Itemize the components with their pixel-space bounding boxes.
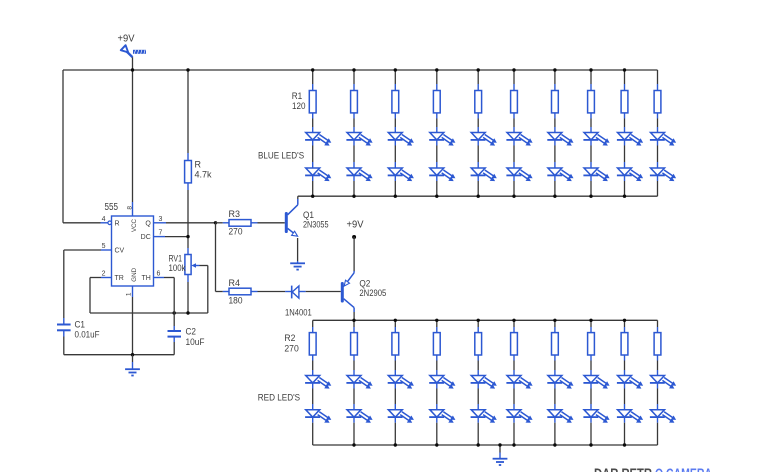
wire ground stem	[132, 355, 134, 362]
wire pin7 stub	[154, 236, 166, 238]
wire red column 10 drop	[657, 320, 659, 327]
wire left rail down to 555 reset	[62, 70, 64, 223]
junction blue col 4 top rail	[435, 68, 438, 71]
junction ground node	[131, 353, 134, 356]
wire blue column 4 drop	[436, 70, 438, 84]
wire C2 top wire	[173, 313, 175, 326]
wire pin7 to RV1 net	[165, 236, 188, 238]
wire blue column 7 to bottom rail	[554, 176, 556, 182]
svg-text:R3: R3	[229, 209, 241, 219]
junction red col 4 top rail	[435, 319, 438, 322]
resistor R1 bank column 4	[433, 91, 440, 113]
svg-text:O CAMERA: O CAMERA	[655, 466, 712, 472]
red LED column 3 top	[388, 376, 414, 389]
wire +9V to Q2 emitter	[353, 237, 355, 271]
wire blue column 5 resistor to LED	[477, 113, 479, 119]
wire VCC drop	[132, 70, 134, 202]
svg-text:1: 1	[125, 292, 132, 296]
junction red col 8 bottom rail	[589, 443, 592, 446]
wire red column 3 between LEDs	[394, 383, 396, 389]
wire blue column 10 drop	[657, 70, 659, 84]
junction blue col 8 top rail	[589, 68, 592, 71]
wire blue column 6 drop	[513, 70, 515, 84]
svg-text:2N3055: 2N3055	[303, 219, 329, 229]
wire pin5 stub	[101, 249, 112, 251]
wire drop to R 4.7k	[187, 70, 189, 153]
junction blue col 3 top rail	[394, 68, 397, 71]
blue LED column 9 bottom	[617, 168, 643, 181]
wire red column 6 between LEDs	[513, 383, 515, 389]
blue LED column 4 bottom	[429, 168, 455, 181]
junction red col 3 bottom rail	[394, 443, 397, 446]
blue LED column 1 bottom	[305, 168, 331, 181]
svg-text:GND: GND	[131, 267, 138, 281]
resistor R1 bank column 9	[621, 91, 628, 113]
wire blue column 8 resistor to LED	[590, 113, 592, 119]
wire CV down to C1	[63, 250, 65, 318]
wire to 555 pin4	[63, 222, 101, 224]
junction blue col 8 bottom rail	[589, 195, 592, 198]
svg-text:TR: TR	[115, 275, 124, 282]
wire red column 10 resistor to LED	[657, 355, 659, 361]
wire red column 9 between LEDs	[624, 383, 626, 389]
svg-text:DAR RETR: DAR RETR	[594, 466, 652, 472]
wire red column 3 resistor to LED	[394, 355, 396, 361]
junction blue col 5 top rail	[477, 68, 480, 71]
junction red col 5 bottom rail	[477, 443, 480, 446]
junction blue col 5 bottom rail	[477, 195, 480, 198]
wire red column 4 to bottom rail	[436, 417, 438, 423]
svg-text:R: R	[115, 220, 120, 227]
wire R3 left lead	[223, 222, 229, 224]
svg-text:VCC: VCC	[131, 218, 138, 232]
wire red column 9 resistor to LED	[624, 355, 626, 361]
red LED column 10 top	[650, 376, 676, 389]
wire output node down to R4	[215, 223, 217, 292]
wire blue column 7 resistor to LED	[554, 113, 556, 119]
resistor R 4.7k	[185, 161, 192, 183]
junction blue col 6 top rail	[512, 68, 515, 71]
svg-text:10uF: 10uF	[186, 337, 205, 347]
blue LED column 8 top	[583, 133, 609, 146]
wire blue column 9 drop	[624, 70, 626, 84]
blue LED column 6 top	[506, 133, 532, 146]
blue LED column 1 top	[305, 133, 331, 146]
wire CV left	[64, 249, 101, 251]
wire pin1 stub	[132, 286, 134, 297]
junction blue col 2 top rail	[352, 68, 355, 71]
wire Q1 emitter down	[297, 238, 299, 261]
ground (Q1 emitter)	[290, 263, 305, 269]
wire red column 3 drop	[394, 320, 396, 327]
red LED column 2 bottom	[346, 410, 372, 423]
wire red column 10 to bottom rail	[657, 417, 659, 423]
wire red column 8 resistor to LED	[590, 355, 592, 361]
wire ground stem blue	[132, 362, 134, 369]
wire blue column 4 resistor to LED	[436, 113, 438, 119]
wire TH right	[164, 277, 174, 279]
svg-text:R2: R2	[284, 333, 295, 343]
wire blue column 8 to bottom rail	[590, 176, 592, 182]
resistor R2 bank column 1	[309, 333, 316, 355]
wire blue column 3 between LEDs	[394, 140, 396, 146]
wire R 4.7k top lead	[187, 153, 189, 161]
svg-text:R1: R1	[292, 91, 303, 101]
capacitor C1 0.01uF	[57, 324, 71, 326]
red LED column 6 bottom	[506, 410, 532, 423]
junction power entry on top rail	[131, 68, 134, 71]
junction blue col 2 bottom rail	[352, 195, 355, 198]
wire blue column 4 to bottom rail	[436, 176, 438, 182]
wire Q2 collector to red rail	[353, 312, 355, 320]
wire blue column 10 resistor to LED	[657, 113, 659, 119]
wire R3 right lead	[251, 222, 258, 224]
wire blue column 8 between LEDs	[590, 140, 592, 146]
svg-text:Q1: Q1	[303, 210, 314, 220]
svg-text:6: 6	[157, 271, 161, 278]
junction R 4.7k on top rail	[186, 68, 189, 71]
junction blue col 1 top rail	[311, 68, 314, 71]
blue LED column 2 bottom	[346, 168, 372, 181]
blue LED column 9 top	[617, 133, 643, 146]
svg-text:2N2905: 2N2905	[359, 288, 386, 298]
junction red col 7 top rail	[553, 319, 556, 322]
junction red col 3 top rail	[394, 319, 397, 322]
wire blue column 3 to bottom rail	[394, 176, 396, 182]
blue LED column 10 top	[650, 133, 676, 146]
blue LED column 3 bottom	[388, 168, 414, 181]
wire blue column 9 resistor to LED	[624, 113, 626, 119]
red LED column 6 top	[506, 376, 532, 389]
blue LED column 4 top	[429, 133, 455, 146]
wire diode anode lead	[299, 291, 306, 293]
wire R4 right lead	[251, 291, 258, 293]
wire RV1 top lead	[187, 248, 189, 255]
wire red column 4 resistor to LED	[436, 355, 438, 361]
svg-text:4.7k: 4.7k	[195, 170, 212, 180]
wire blue column 1 between LEDs	[312, 140, 314, 146]
junction blue col 4 bottom rail	[435, 195, 438, 198]
svg-text:BLUE LED'S: BLUE LED'S	[258, 151, 304, 161]
wire pin3 out	[166, 222, 216, 224]
wire blue column 1 resistor to LED	[312, 113, 314, 119]
resistor R1 bank column 8	[588, 91, 595, 113]
red LED column 10 bottom	[650, 410, 676, 423]
resistor R1 bank column 10	[654, 91, 661, 113]
resistor R1 bank column 6	[511, 91, 518, 113]
junction red col 9 top rail	[623, 319, 626, 322]
wire diode to Q2 base	[306, 291, 341, 293]
junction red col 8 top rail	[589, 319, 592, 322]
wire red ground stem blue	[499, 453, 501, 459]
svg-text:RV1: RV1	[169, 254, 183, 264]
wire Q1 emitter stub	[297, 261, 299, 263]
wire red column 5 to bottom rail	[477, 417, 479, 423]
blue LED column 5 top	[471, 133, 497, 146]
resistor R2 bank column 6	[511, 333, 518, 355]
resistor R2 bank column 10	[654, 333, 661, 355]
wire blue column 8 drop	[590, 70, 592, 84]
junction blue col 6 bottom rail	[512, 195, 515, 198]
wire blue column 4 between LEDs	[436, 140, 438, 146]
wire red column 2 between LEDs	[353, 383, 355, 389]
wire pin4 stub	[101, 222, 108, 224]
wire C2 top lead	[173, 326, 175, 331]
wire blue column 7 between LEDs	[554, 140, 556, 146]
red LED column 1 top	[305, 376, 331, 389]
wire red column 6 to bottom rail	[513, 417, 515, 423]
wire blue column 6 to bottom rail	[513, 176, 515, 182]
wire blue column 2 to bottom rail	[353, 176, 355, 182]
blue LED column 2 top	[346, 133, 372, 146]
wire red column 5 drop	[477, 320, 479, 327]
resistor R1 bank column 7	[552, 91, 559, 113]
node +9V terminal	[352, 235, 356, 239]
wire pin6 stub	[154, 277, 165, 279]
junction Q output node	[214, 221, 217, 224]
wire top +9V rail	[63, 69, 658, 71]
wire blue column 2 resistor to LED	[353, 113, 355, 119]
wire TH down	[173, 278, 175, 314]
svg-text:4: 4	[102, 216, 106, 223]
wire red column 1 resistor to LED	[312, 355, 314, 361]
svg-text:270: 270	[229, 226, 243, 236]
junction blue col 7 bottom rail	[553, 195, 556, 198]
wire C1 to bottom wire	[63, 337, 65, 355]
svg-text:7: 7	[159, 230, 163, 237]
wire pin2 stub	[101, 277, 112, 279]
junction RV1 bottom on net	[186, 311, 189, 314]
wire wiper horizontal	[200, 265, 208, 267]
wire red column 1 between LEDs	[312, 383, 314, 389]
svg-text:R4: R4	[229, 278, 241, 288]
blue LED column 8 bottom	[583, 168, 609, 181]
junction pin7 / RV1 top	[186, 235, 189, 238]
svg-text:DC: DC	[141, 234, 151, 241]
wire blue column 5 between LEDs	[477, 140, 479, 146]
svg-text:555: 555	[105, 202, 119, 213]
svg-text:100k: 100k	[169, 263, 186, 273]
wire red array bottom rail	[313, 444, 658, 446]
wire red column 1 drop	[312, 320, 314, 327]
power +9V flag (top left)	[121, 45, 146, 57]
resistor R2 bank column 8	[588, 333, 595, 355]
svg-text:2: 2	[102, 271, 106, 278]
wire red column 7 resistor to LED	[554, 355, 556, 361]
svg-text:3: 3	[159, 216, 163, 223]
transistor Q1 2N3055	[285, 212, 288, 233]
junction ground on red bottom rail	[498, 443, 501, 446]
wire blue column 5 drop	[477, 70, 479, 84]
blue LED column 3 top	[388, 133, 414, 146]
junction red col 9 bottom rail	[623, 443, 626, 446]
junction red col 2 bottom rail	[352, 443, 355, 446]
resistor R1 bank column 5	[475, 91, 482, 113]
blue LED column 6 bottom	[506, 168, 532, 181]
svg-text:0.01uF: 0.01uF	[75, 329, 100, 339]
wire red column 3 to bottom rail	[394, 417, 396, 423]
svg-text:8: 8	[126, 206, 133, 210]
wire R4 left lead	[223, 291, 229, 293]
wire blue column 1 drop	[312, 70, 314, 84]
red LED column 4 bottom	[429, 410, 455, 423]
blue LED column 7 bottom	[547, 168, 573, 181]
svg-text:180: 180	[229, 296, 243, 306]
junction red col 2 top rail	[352, 319, 355, 322]
wire R3 to Q1 base	[258, 222, 285, 224]
svg-text:R: R	[195, 160, 202, 170]
resistor R2 bank column 5	[475, 333, 482, 355]
resistor R2 bank column 2	[351, 333, 358, 355]
wire red column 5 between LEDs	[477, 383, 479, 389]
svg-text:C1: C1	[75, 319, 86, 329]
junction red col 5 top rail	[477, 319, 480, 322]
wire red column 8 drop	[590, 320, 592, 327]
svg-text:5: 5	[102, 243, 106, 250]
wire red column 7 to bottom rail	[554, 417, 556, 423]
wire red ground stem	[499, 445, 501, 453]
wire TR/TH net horizontal	[90, 312, 208, 314]
555 reset bubble pin 4	[108, 221, 112, 225]
wire pin8 stub	[132, 202, 134, 216]
resistor R1 bank column 3	[392, 91, 399, 113]
wire R 4.7k bottom lead	[187, 183, 189, 190]
resistor R2 bank column 3	[392, 333, 399, 355]
svg-text:+9V: +9V	[347, 220, 364, 231]
wire R4 to diode	[258, 291, 286, 293]
wire blue column 10 between LEDs	[657, 140, 659, 146]
junction blue col 9 bottom rail	[623, 195, 626, 198]
red LED column 4 top	[429, 376, 455, 389]
wire blue column 9 to bottom rail	[624, 176, 626, 182]
svg-text:270: 270	[284, 343, 298, 353]
wire wiper riser	[207, 266, 209, 314]
red LED column 9 top	[617, 376, 643, 389]
red LED column 9 bottom	[617, 410, 643, 423]
wire to R4	[216, 291, 223, 293]
red LED column 5 bottom	[471, 410, 497, 423]
wire C2 to bottom wire	[173, 342, 175, 355]
wire red column 6 resistor to LED	[513, 355, 515, 361]
red LED column 1 bottom	[305, 410, 331, 423]
red LED column 3 bottom	[388, 410, 414, 423]
red LED column 8 bottom	[583, 410, 609, 423]
junction blue col 3 bottom rail	[394, 195, 397, 198]
wire pin3 stub	[154, 222, 167, 224]
wire blue column 3 drop	[394, 70, 396, 84]
svg-text:1N4001: 1N4001	[285, 308, 312, 318]
wire pin1 to ground rail	[132, 297, 134, 355]
wire red column 9 drop	[624, 320, 626, 327]
transistor Q2 2N2905	[341, 282, 344, 303]
resistor R2 bank column 9	[621, 333, 628, 355]
wire red column 6 drop	[513, 320, 515, 327]
resistor R1 bank column 1	[309, 91, 316, 113]
wire Q1 collector to blue rail	[297, 196, 299, 199]
svg-text:C2: C2	[186, 327, 197, 337]
resistor R2 bank column 7	[552, 333, 559, 355]
wire blue column 5 to bottom rail	[477, 176, 479, 182]
wire blue column 7 drop	[554, 70, 556, 84]
wire red column 2 drop	[353, 320, 355, 327]
junction blue col 7 top rail	[553, 68, 556, 71]
blue LED column 10 bottom	[650, 168, 676, 181]
junction red col 7 bottom rail	[553, 443, 556, 446]
wire blue array bottom rail	[298, 195, 658, 197]
wire blue column 6 between LEDs	[513, 140, 515, 146]
wire red column 2 to bottom rail	[353, 417, 355, 423]
wire red array top rail	[313, 319, 658, 321]
wire red column 7 drop	[554, 320, 556, 327]
resistor R2 bank column 4	[433, 333, 440, 355]
svg-text:+9V: +9V	[118, 34, 135, 45]
wire red column 7 between LEDs	[554, 383, 556, 389]
wire red column 9 to bottom rail	[624, 417, 626, 423]
wire RV1 bottom lead	[187, 275, 189, 283]
red LED column 2 top	[346, 376, 372, 389]
junction red col 4 bottom rail	[435, 443, 438, 446]
wire blue column 6 resistor to LED	[513, 113, 515, 119]
red LED column 8 top	[583, 376, 609, 389]
wire red column 8 between LEDs	[590, 383, 592, 389]
wire C1 top lead	[63, 318, 65, 325]
svg-text:TH: TH	[141, 275, 150, 282]
wire to R3	[216, 222, 223, 224]
wire bottom ground wire	[64, 354, 174, 356]
junction red col 6 bottom rail	[512, 443, 515, 446]
wire C1 bottom lead	[63, 330, 65, 336]
wire blue column 2 drop	[353, 70, 355, 84]
junction TH/C2 on net	[173, 311, 176, 314]
wire red column 8 to bottom rail	[590, 417, 592, 423]
wire red column 10 between LEDs	[657, 383, 659, 389]
wire TR left	[90, 277, 101, 279]
junction blue col 1 bottom rail	[311, 195, 314, 198]
blue LED column 7 top	[547, 133, 573, 146]
wire TR down	[89, 278, 91, 314]
wire red column 4 drop	[436, 320, 438, 327]
wire blue column 3 resistor to LED	[394, 113, 396, 119]
red LED column 5 top	[471, 376, 497, 389]
red LED column 7 top	[547, 376, 573, 389]
wire diode cathode lead	[285, 291, 292, 293]
resistor R1 bank column 2	[351, 91, 358, 113]
wire blue column 9 between LEDs	[624, 140, 626, 146]
svg-text:120: 120	[292, 101, 306, 111]
red LED column 7 bottom	[547, 410, 573, 423]
svg-text:Q: Q	[145, 220, 151, 227]
junction blue col 9 top rail	[623, 68, 626, 71]
svg-text:RED LED'S: RED LED'S	[258, 393, 300, 403]
potentiometer RV1 100k	[185, 255, 191, 275]
wire red column 4 between LEDs	[436, 383, 438, 389]
IC 555 timer body	[112, 216, 154, 286]
svg-text:CV: CV	[115, 248, 125, 255]
wire RV1 bottom to net	[187, 282, 189, 313]
wire blue column 10 to bottom rail	[657, 176, 659, 182]
blue LED column 5 bottom	[471, 168, 497, 181]
wire R 4.7k to RV1	[187, 190, 189, 248]
wire C2 bottom lead	[173, 337, 175, 342]
wire blue column 2 between LEDs	[353, 140, 355, 146]
wire red column 1 to bottom rail	[312, 417, 314, 423]
wire blue column 1 to bottom rail	[312, 176, 314, 182]
junction red col 6 top rail	[512, 319, 515, 322]
wire power stem to top rail	[132, 57, 134, 70]
wire red column 2 resistor to LED	[353, 355, 355, 361]
wire red column 5 resistor to LED	[477, 355, 479, 361]
